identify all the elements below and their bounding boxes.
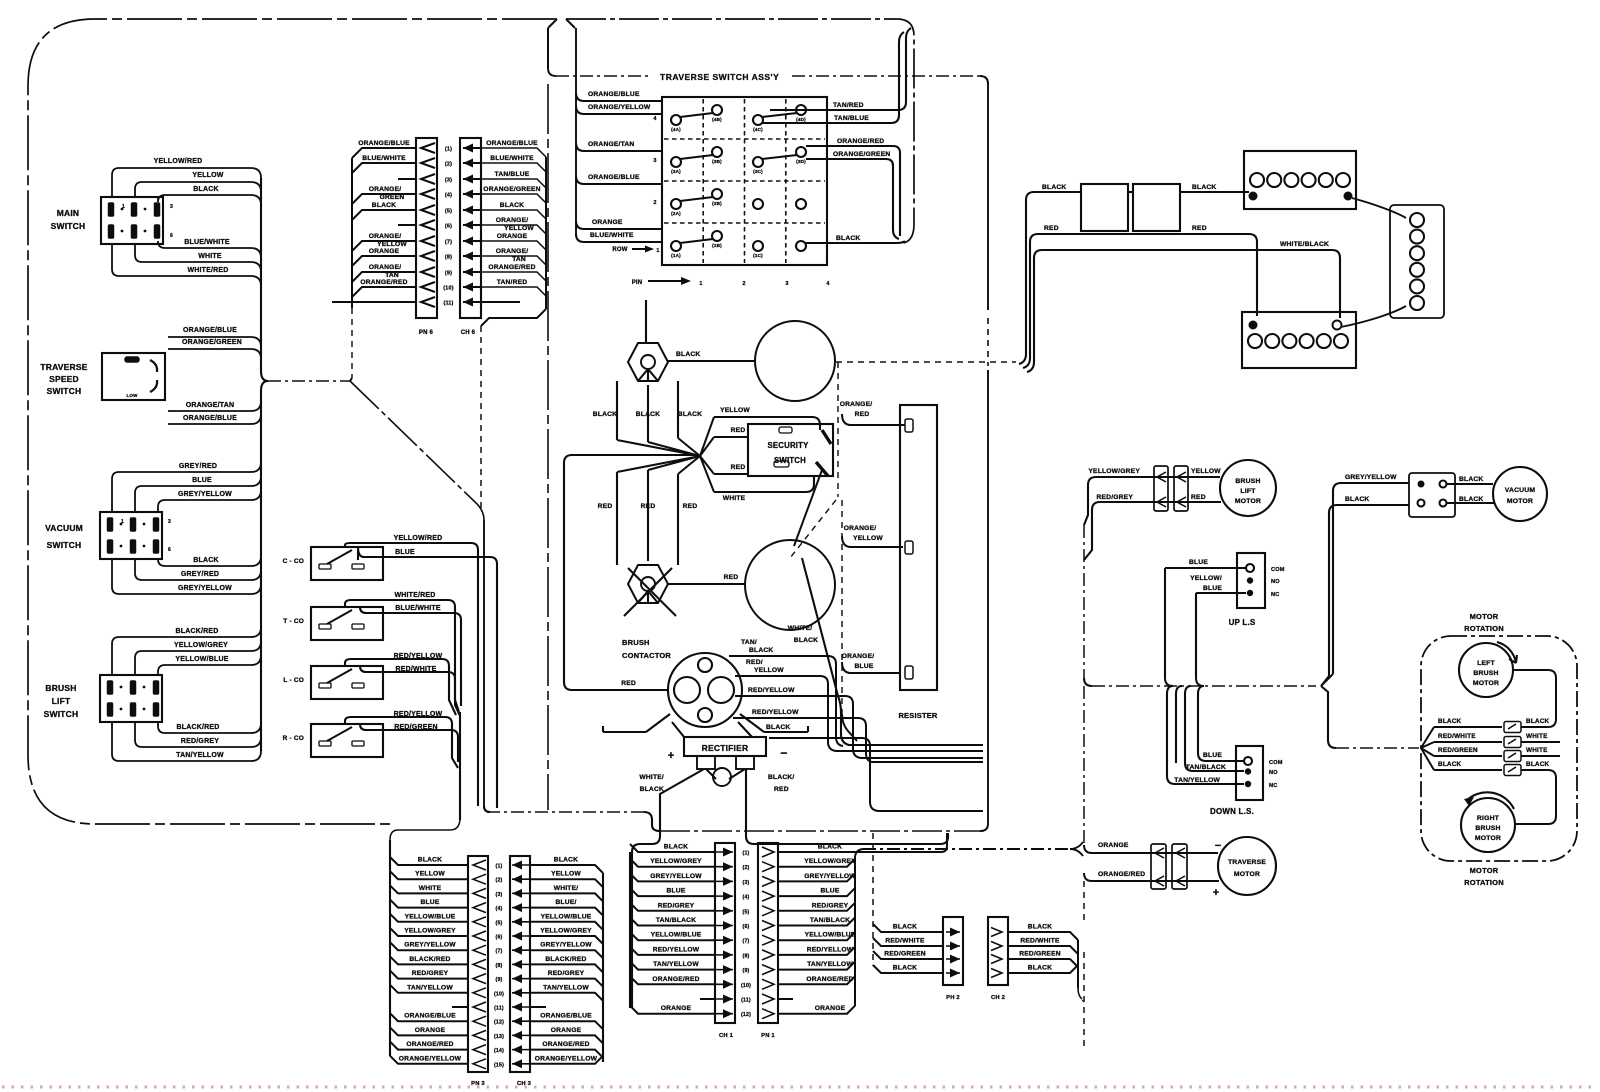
svg-text:BLACK: BLACK (554, 857, 578, 864)
svg-text:(1): (1) (445, 147, 452, 153)
svg-text:MOTOR: MOTOR (1235, 498, 1261, 505)
svg-text:(4C): (4C) (753, 127, 763, 132)
svg-text:ORANGE/BLUE: ORANGE/BLUE (183, 415, 237, 422)
svg-text:ORANGE: ORANGE (415, 1027, 446, 1034)
svg-text:YELLOW/GREY: YELLOW/GREY (650, 858, 702, 865)
svg-text:(14): (14) (494, 1048, 504, 1054)
svg-text:BLACK: BLACK (1459, 496, 1483, 503)
svg-text:MOTOR: MOTOR (1475, 835, 1501, 842)
svg-text:(6): (6) (496, 935, 503, 941)
svg-text:ORANGE/BLUE: ORANGE/BLUE (358, 140, 410, 147)
svg-text:3: 3 (653, 158, 656, 164)
svg-text:(3): (3) (445, 178, 452, 184)
svg-text:BLACK: BLACK (372, 202, 396, 209)
svg-text:ORANGE/GREEN: ORANGE/GREEN (833, 151, 890, 158)
svg-text:1: 1 (699, 281, 702, 287)
svg-text:YELLOW/GREY: YELLOW/GREY (174, 642, 228, 649)
svg-text:RED/YELLOW: RED/YELLOW (752, 709, 799, 716)
svg-text:(3B): (3B) (712, 159, 722, 164)
svg-text:GREY/YELLOW: GREY/YELLOW (178, 585, 232, 592)
svg-text:(5): (5) (496, 920, 503, 926)
svg-text:BLUE/WHITE: BLUE/WHITE (362, 155, 406, 162)
svg-text:SWITCH: SWITCH (51, 221, 86, 231)
svg-text:(9): (9) (445, 271, 452, 277)
svg-text:2: 2 (742, 281, 745, 287)
svg-text:CONTACTOR: CONTACTOR (622, 651, 671, 660)
svg-text:ORANGE/RED: ORANGE/RED (488, 264, 535, 271)
svg-text:ORANGE/RED: ORANGE/RED (542, 1041, 589, 1048)
svg-text:LIFT: LIFT (52, 696, 71, 706)
svg-text:4: 4 (653, 116, 657, 122)
svg-text:BLACK: BLACK (678, 411, 702, 418)
svg-text:RED/GREY: RED/GREY (1096, 494, 1133, 501)
svg-text:WHITE/: WHITE/ (554, 885, 579, 892)
svg-text:TAN/YELLOW: TAN/YELLOW (543, 984, 589, 991)
svg-text:BRUSH: BRUSH (1473, 670, 1498, 677)
svg-text:BLUE: BLUE (854, 663, 873, 670)
svg-text:BLACK: BLACK (1192, 184, 1216, 191)
svg-text:GREY/YELLOW: GREY/YELLOW (404, 942, 456, 949)
svg-text:YELLOW/BLUE: YELLOW/BLUE (805, 932, 856, 939)
svg-text:MOTOR: MOTOR (1473, 680, 1499, 687)
svg-text:ORANGE/BLUE: ORANGE/BLUE (486, 140, 538, 147)
svg-text:ORANGE/BLUE: ORANGE/BLUE (588, 91, 640, 98)
svg-text:(9): (9) (743, 968, 750, 974)
svg-text:(7): (7) (496, 949, 503, 955)
svg-text:SWITCH: SWITCH (47, 540, 82, 550)
svg-text:(1A): (1A) (671, 253, 681, 258)
svg-text:(4): (4) (445, 193, 452, 199)
svg-text:−: − (780, 746, 787, 760)
svg-text:CH 6: CH 6 (461, 330, 476, 336)
svg-text:YELLOW/BLUE: YELLOW/BLUE (405, 913, 456, 920)
svg-text:RIGHT: RIGHT (1477, 815, 1500, 822)
svg-text:SECURITY: SECURITY (767, 441, 809, 450)
svg-text:6: 6 (170, 233, 173, 239)
svg-text:PN 6: PN 6 (419, 330, 434, 336)
svg-text:TAN/RED: TAN/RED (833, 102, 864, 109)
svg-text:(10): (10) (741, 983, 751, 989)
svg-text:CH 1: CH 1 (719, 1033, 734, 1039)
svg-text:BLACK: BLACK (1345, 496, 1369, 503)
svg-text:1: 1 (656, 248, 659, 254)
svg-text:YELLOW: YELLOW (853, 535, 883, 542)
svg-text:WHITE/BLACK: WHITE/BLACK (1280, 241, 1329, 248)
svg-text:−: − (1215, 840, 1222, 852)
svg-text:ROTATION: ROTATION (1464, 624, 1504, 633)
svg-text:BLACK: BLACK (193, 557, 219, 564)
svg-text:TAN/BLUE: TAN/BLUE (834, 115, 869, 122)
svg-text:BRUSH: BRUSH (1475, 825, 1500, 832)
svg-text:YELLOW/BLUE: YELLOW/BLUE (175, 656, 228, 663)
svg-text:BLUE/WHITE: BLUE/WHITE (590, 232, 634, 239)
svg-text:ORANGE/YELLOW: ORANGE/YELLOW (588, 104, 651, 111)
svg-text:3: 3 (170, 204, 173, 210)
svg-text:MOTOR: MOTOR (1470, 612, 1499, 621)
svg-text:(1B): (1B) (712, 243, 722, 248)
svg-text:BLACK: BLACK (794, 637, 818, 644)
svg-text:(10): (10) (494, 991, 504, 997)
svg-text:YELLOW/RED: YELLOW/RED (394, 535, 443, 542)
svg-text:(3D): (3D) (796, 159, 806, 164)
svg-text:GREY/RED: GREY/RED (181, 571, 219, 578)
svg-text:(8): (8) (743, 953, 750, 959)
svg-text:ORANGE/GREEN: ORANGE/GREEN (182, 339, 242, 346)
svg-text:ORANGE/RED: ORANGE/RED (406, 1041, 453, 1048)
svg-text:(12): (12) (741, 1012, 751, 1018)
svg-text:BLUE: BLUE (395, 549, 415, 556)
svg-text:BLUE: BLUE (820, 888, 839, 895)
svg-text:(13): (13) (494, 1034, 504, 1040)
svg-text:BLACK/RED: BLACK/RED (545, 956, 586, 963)
svg-text:(4D): (4D) (796, 117, 806, 122)
svg-text:TAN/YELLOW: TAN/YELLOW (407, 984, 453, 991)
svg-text:(4): (4) (496, 906, 503, 912)
svg-text:BLUE: BLUE (1203, 752, 1222, 759)
svg-text:WHITE/RED: WHITE/RED (394, 592, 435, 599)
svg-text:RED/YELLOW: RED/YELLOW (807, 946, 854, 953)
svg-text:WHITE: WHITE (198, 253, 222, 260)
svg-text:(4A): (4A) (671, 127, 681, 132)
svg-text:RED/GREY: RED/GREY (658, 902, 695, 909)
svg-text:NO: NO (1269, 770, 1278, 776)
svg-text:(8): (8) (496, 963, 503, 969)
svg-text:YELLOW/: YELLOW/ (1190, 575, 1222, 582)
svg-text:ORANGE: ORANGE (815, 1005, 846, 1012)
svg-text:ORANGE/BLUE: ORANGE/BLUE (540, 1013, 592, 1020)
svg-text:ORANGE: ORANGE (551, 1027, 582, 1034)
svg-text:WHITE: WHITE (1526, 733, 1548, 740)
svg-text:ORANGE/YELLOW: ORANGE/YELLOW (399, 1055, 462, 1062)
svg-text:(11): (11) (443, 301, 453, 307)
svg-text:ORANGE/RED: ORANGE/RED (1098, 871, 1145, 878)
svg-text:T - CO: T - CO (283, 618, 304, 625)
svg-text:TAN/BLACK: TAN/BLACK (810, 917, 850, 924)
svg-text:BLACK: BLACK (1526, 718, 1550, 725)
svg-text:ORANGE: ORANGE (1098, 842, 1129, 849)
svg-text:RED/WHITE: RED/WHITE (1438, 733, 1476, 740)
svg-text:ORANGE: ORANGE (661, 1005, 692, 1012)
svg-text:(3): (3) (743, 880, 750, 886)
svg-text:GREY/YELLOW: GREY/YELLOW (178, 491, 232, 498)
svg-text:BLUE/WHITE: BLUE/WHITE (184, 239, 230, 246)
svg-text:RED/WHITE: RED/WHITE (885, 938, 925, 945)
svg-text:PH 2: PH 2 (946, 995, 960, 1001)
svg-text:BLUE/WHITE: BLUE/WHITE (490, 155, 534, 162)
svg-text:BLACK: BLACK (836, 235, 860, 242)
svg-text:NO: NO (1271, 579, 1280, 585)
svg-text:YELLOW: YELLOW (377, 241, 407, 248)
svg-text:BLACK/RED: BLACK/RED (409, 956, 450, 963)
svg-text:ORANGE: ORANGE (369, 248, 400, 255)
svg-text:RED: RED (855, 411, 870, 418)
svg-text:BLACK: BLACK (893, 924, 917, 931)
svg-text:BLACK: BLACK (640, 786, 664, 793)
svg-text:COM: COM (1269, 760, 1283, 766)
svg-text:ORANGE/: ORANGE/ (369, 186, 402, 193)
svg-text:BLACK: BLACK (664, 844, 688, 851)
svg-text:BLUE: BLUE (666, 888, 685, 895)
svg-text:RED/GREY: RED/GREY (181, 738, 219, 745)
svg-text:ORANGE/BLUE: ORANGE/BLUE (183, 327, 237, 334)
svg-text:ORANGE/RED: ORANGE/RED (806, 976, 853, 983)
svg-text:COM: COM (1271, 567, 1285, 573)
svg-text:BLACK/RED: BLACK/RED (175, 628, 218, 635)
svg-text:YELLOW: YELLOW (415, 871, 445, 878)
svg-text:BLACK: BLACK (1438, 761, 1462, 768)
svg-text:YELLOW/BLUE: YELLOW/BLUE (541, 913, 592, 920)
svg-text:YELLOW/GREY: YELLOW/GREY (1088, 468, 1140, 475)
svg-text:BLACK: BLACK (766, 724, 790, 731)
svg-text:ORANGE/RED: ORANGE/RED (360, 279, 407, 286)
svg-text:TAN/YELLOW: TAN/YELLOW (653, 961, 699, 968)
svg-text:TAN: TAN (512, 256, 526, 263)
svg-text:MOTOR: MOTOR (1234, 871, 1260, 878)
svg-text:ORANGE: ORANGE (592, 219, 623, 226)
svg-text:YELLOW: YELLOW (504, 225, 534, 232)
svg-text:WHITE: WHITE (723, 495, 746, 502)
svg-text:BLACK: BLACK (1042, 184, 1066, 191)
svg-text:BLACK: BLACK (418, 857, 442, 864)
svg-text:BLACK/: BLACK/ (768, 774, 794, 781)
svg-text:RED/GREY: RED/GREY (412, 970, 449, 977)
svg-text:WHITE/RED: WHITE/RED (187, 267, 228, 274)
svg-text:C - CO: C - CO (283, 558, 304, 565)
svg-text:TAN/RED: TAN/RED (497, 279, 528, 286)
svg-text:BRUSH: BRUSH (45, 683, 76, 693)
svg-text:RED: RED (724, 574, 739, 581)
svg-text:ORANGE/: ORANGE/ (369, 233, 402, 240)
svg-text:YELLOW/GREY: YELLOW/GREY (540, 928, 592, 935)
svg-text:RED: RED (598, 503, 613, 510)
svg-text:GREEN: GREEN (380, 194, 405, 201)
svg-text:ORANGE/RED: ORANGE/RED (837, 138, 884, 145)
svg-text:BLACK: BLACK (1526, 761, 1550, 768)
svg-text:RED: RED (1044, 225, 1059, 232)
svg-text:(11): (11) (494, 1006, 504, 1012)
svg-text:MOTOR: MOTOR (1507, 498, 1533, 505)
svg-text:TRAVERSE: TRAVERSE (40, 362, 87, 372)
svg-text:ORANGE/YELLOW: ORANGE/YELLOW (535, 1055, 598, 1062)
svg-text:BLACK: BLACK (749, 647, 773, 654)
svg-text:2: 2 (653, 200, 656, 206)
svg-text:SWITCH: SWITCH (47, 386, 82, 396)
svg-text:SWITCH: SWITCH (44, 709, 79, 719)
svg-text:RED/GREY: RED/GREY (548, 970, 585, 977)
svg-text:ORANGE/: ORANGE/ (496, 248, 529, 255)
svg-text:RED: RED (1191, 494, 1206, 501)
svg-text:(7): (7) (743, 939, 750, 945)
svg-text:(4B): (4B) (712, 117, 722, 122)
svg-text:TAN/BLACK: TAN/BLACK (656, 917, 696, 924)
svg-text:(2): (2) (496, 878, 503, 884)
svg-text:YELLOW/BLUE: YELLOW/BLUE (651, 932, 702, 939)
svg-text:(6): (6) (743, 924, 750, 930)
svg-text:BLUE: BLUE (192, 477, 212, 484)
svg-text:3: 3 (168, 519, 171, 525)
svg-text:+: + (1213, 887, 1220, 899)
svg-text:(10): (10) (443, 286, 453, 292)
svg-text:BRUSH: BRUSH (622, 638, 650, 647)
svg-text:BLACK: BLACK (1028, 924, 1052, 931)
svg-text:BLACK: BLACK (676, 351, 700, 358)
svg-text:ROW: ROW (612, 247, 627, 253)
svg-text:GREY/YELLOW: GREY/YELLOW (1345, 474, 1397, 481)
svg-text:TAN/YELLOW: TAN/YELLOW (176, 752, 224, 759)
svg-text:(6): (6) (445, 224, 452, 230)
svg-text:(7): (7) (445, 240, 452, 246)
svg-text:YELLOW: YELLOW (551, 871, 581, 878)
svg-text:ORANGE/BLUE: ORANGE/BLUE (588, 174, 640, 181)
svg-text:(5): (5) (743, 909, 750, 915)
svg-text:(2B): (2B) (712, 201, 722, 206)
svg-text:RED/GREY: RED/GREY (812, 902, 849, 909)
svg-text:(3C): (3C) (753, 169, 763, 174)
svg-text:RED/WHITE: RED/WHITE (1020, 938, 1060, 945)
svg-text:BLACK: BLACK (1028, 965, 1052, 972)
svg-text:LEFT: LEFT (1477, 660, 1495, 667)
svg-text:TAN/: TAN/ (741, 639, 757, 646)
svg-text:(8): (8) (445, 255, 452, 261)
svg-text:(1C): (1C) (753, 253, 763, 258)
svg-text:RECTIFIER: RECTIFIER (702, 743, 749, 753)
svg-text:RED/GREEN: RED/GREEN (884, 951, 926, 958)
svg-text:3: 3 (785, 281, 788, 287)
svg-text:6: 6 (168, 547, 171, 553)
svg-text:BLACK: BLACK (893, 965, 917, 972)
svg-text:WHITE/: WHITE/ (639, 774, 664, 781)
svg-text:BLACK: BLACK (1438, 718, 1462, 725)
svg-text:BLUE/: BLUE/ (555, 899, 576, 906)
svg-text:BLUE/WHITE: BLUE/WHITE (395, 605, 441, 612)
svg-text:RESISTER: RESISTER (898, 711, 937, 720)
svg-text:PN 3: PN 3 (471, 1081, 485, 1087)
svg-text:YELLOW: YELLOW (1191, 468, 1221, 475)
svg-text:RED: RED (774, 786, 789, 793)
svg-text:BLACK: BLACK (818, 844, 842, 851)
svg-text:ORANGE/: ORANGE/ (842, 653, 875, 660)
svg-text:ORANGE/TAN: ORANGE/TAN (186, 402, 235, 409)
svg-text:WHITE: WHITE (419, 885, 442, 892)
svg-text:BLUE: BLUE (420, 899, 439, 906)
svg-text:BLUE: BLUE (1189, 559, 1208, 566)
svg-text:GREY/RED: GREY/RED (179, 463, 217, 470)
svg-text:(12): (12) (494, 1020, 504, 1026)
svg-text:DOWN L.S.: DOWN L.S. (1210, 807, 1254, 816)
svg-text:WHITE/: WHITE/ (788, 625, 813, 632)
svg-text:RED: RED (683, 503, 698, 510)
svg-text:YELLOW: YELLOW (720, 407, 750, 414)
svg-text:RED: RED (731, 427, 746, 434)
svg-text:(2): (2) (743, 865, 750, 871)
svg-text:TAN: TAN (385, 272, 399, 279)
svg-text:ORANGE: ORANGE (497, 233, 528, 240)
svg-text:ORANGE/BLUE: ORANGE/BLUE (404, 1013, 456, 1020)
svg-text:YELLOW: YELLOW (754, 667, 784, 674)
svg-text:LIFT: LIFT (1240, 488, 1256, 495)
svg-text:ORANGE/GREEN: ORANGE/GREEN (483, 186, 540, 193)
svg-text:+: + (668, 750, 675, 762)
svg-text:L - CO: L - CO (283, 677, 304, 684)
svg-text:RED/YELLOW: RED/YELLOW (653, 946, 700, 953)
svg-text:(1): (1) (496, 864, 503, 870)
svg-text:VACUUM: VACUUM (45, 523, 83, 533)
svg-text:(15): (15) (494, 1062, 504, 1068)
svg-text:MAIN: MAIN (57, 208, 80, 218)
svg-text:4: 4 (826, 281, 830, 287)
svg-text:YELLOW: YELLOW (192, 172, 223, 179)
svg-text:RED/GREEN: RED/GREEN (1438, 747, 1478, 754)
svg-text:(1): (1) (743, 851, 750, 857)
svg-text:ORANGE/TAN: ORANGE/TAN (588, 141, 634, 148)
svg-text:PIN: PIN (632, 280, 643, 286)
svg-text:YELLOW/GREY: YELLOW/GREY (404, 928, 456, 935)
svg-text:(2A): (2A) (671, 211, 681, 216)
svg-text:PN 1: PN 1 (761, 1033, 775, 1039)
svg-text:1: 1 (121, 519, 124, 525)
svg-text:(4): (4) (743, 895, 750, 901)
svg-text:UP L.S: UP L.S (1229, 618, 1256, 627)
svg-text:NC: NC (1271, 592, 1279, 598)
svg-text:ORANGE/: ORANGE/ (840, 401, 873, 408)
svg-text:TRAVERSE SWITCH ASS'Y: TRAVERSE SWITCH ASS'Y (660, 72, 779, 82)
svg-text:YELLOW/RED: YELLOW/RED (154, 158, 203, 165)
svg-text:BLUE: BLUE (1203, 585, 1222, 592)
svg-text:ORANGE/RED: ORANGE/RED (652, 976, 699, 983)
svg-text:(2): (2) (445, 162, 452, 168)
svg-text:ORANGE/: ORANGE/ (844, 525, 877, 532)
svg-text:RED: RED (731, 464, 746, 471)
svg-text:BLACK: BLACK (500, 202, 524, 209)
svg-text:(3): (3) (496, 892, 503, 898)
svg-text:RED: RED (1192, 225, 1207, 232)
svg-text:ROTATION: ROTATION (1464, 878, 1504, 887)
svg-text:1: 1 (122, 204, 125, 210)
svg-text:ORANGE/: ORANGE/ (369, 264, 402, 271)
svg-text:(11): (11) (741, 998, 751, 1004)
svg-text:ORANGE/: ORANGE/ (496, 217, 529, 224)
svg-text:NC: NC (1269, 783, 1277, 789)
svg-text:(9): (9) (496, 977, 503, 983)
svg-text:GREY/YELLOW: GREY/YELLOW (650, 873, 702, 880)
svg-text:BLACK: BLACK (193, 186, 219, 193)
svg-text:WHITE: WHITE (1526, 747, 1548, 754)
svg-text:RED/YELLOW: RED/YELLOW (748, 687, 795, 694)
svg-text:GREY/YELLOW: GREY/YELLOW (540, 942, 592, 949)
svg-text:CH 3: CH 3 (517, 1081, 532, 1087)
svg-text:TAN/YELLOW: TAN/YELLOW (807, 961, 853, 968)
svg-text:SPEED: SPEED (49, 374, 79, 384)
svg-text:RED/GREEN: RED/GREEN (1019, 951, 1061, 958)
svg-text:CH 2: CH 2 (991, 995, 1005, 1001)
svg-text:BLACK/RED: BLACK/RED (176, 724, 219, 731)
svg-text:R - CO: R - CO (283, 735, 304, 742)
svg-text:RED/: RED/ (746, 659, 763, 666)
svg-text:LOW: LOW (126, 393, 138, 398)
svg-text:BLACK: BLACK (593, 411, 617, 418)
svg-text:TRAVERSE: TRAVERSE (1228, 859, 1266, 866)
svg-text:(5): (5) (445, 209, 452, 215)
svg-text:RED: RED (621, 680, 636, 687)
svg-text:MOTOR: MOTOR (1470, 866, 1499, 875)
svg-text:VACUUM: VACUUM (1505, 487, 1536, 494)
svg-text:(3A): (3A) (671, 169, 681, 174)
svg-text:BLACK: BLACK (1459, 476, 1483, 483)
svg-text:TAN/BLUE: TAN/BLUE (495, 171, 530, 178)
svg-text:BRUSH: BRUSH (1235, 478, 1260, 485)
